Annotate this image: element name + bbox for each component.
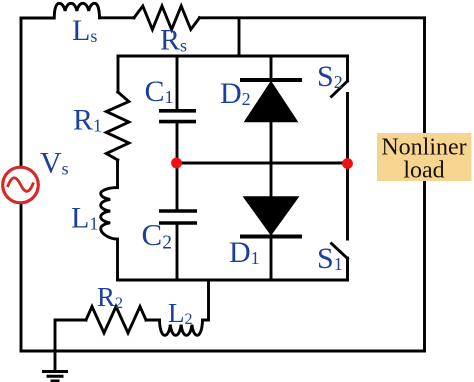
wire capacitor column upper xyxy=(176,56,179,109)
wire L2 riser xyxy=(203,280,209,320)
node left (red) xyxy=(171,158,182,169)
wire bridge bottom xyxy=(118,279,348,282)
nonlinear load box xyxy=(377,133,472,184)
svg-text:C1: C1 xyxy=(145,75,174,108)
svg-text:R1: R1 xyxy=(73,104,102,137)
wire left vertical (Vs branch) xyxy=(20,18,23,351)
resistor R2 xyxy=(86,307,146,334)
wire bridge left upper xyxy=(117,56,120,92)
wire bottom xyxy=(21,350,425,353)
wire bridge left middle xyxy=(116,160,119,188)
svg-text:Vs: Vs xyxy=(40,147,69,180)
wire capacitor column between C1 and node xyxy=(176,123,179,209)
wire diode column upper xyxy=(270,56,273,79)
svg-text:L2: L2 xyxy=(168,298,193,328)
source Vs xyxy=(3,167,39,203)
svg-text:S1: S1 xyxy=(317,242,343,275)
wire top left segment xyxy=(21,17,54,20)
svg-text:R2: R2 xyxy=(97,282,123,312)
wire middle node rail xyxy=(177,162,348,165)
svg-text:Rs: Rs xyxy=(160,24,187,57)
inductor Ls xyxy=(54,3,99,17)
inductor L1 xyxy=(101,188,118,240)
wire top middle segment xyxy=(100,16,135,19)
svg-text:S2: S2 xyxy=(317,60,343,93)
wire switch column between node and S1 xyxy=(346,163,349,239)
svg-text:Ls: Ls xyxy=(72,14,97,47)
svg-text:L1: L1 xyxy=(71,202,98,235)
wire R2 to ground stub xyxy=(55,320,86,371)
wire top right segment xyxy=(200,16,425,19)
capacitor C1 xyxy=(159,111,196,122)
wire capacitor column lower xyxy=(176,225,179,281)
wire diode column lower xyxy=(270,238,273,280)
wire right vertical xyxy=(423,18,426,351)
diode D1 xyxy=(240,197,302,237)
resistor R1 xyxy=(106,92,129,160)
wire feed from top to bridge xyxy=(238,18,241,56)
wire bridge left lower xyxy=(116,239,119,280)
wire bridge top xyxy=(118,55,348,58)
node right (red) xyxy=(342,158,353,169)
wire between L2 and R2 xyxy=(146,319,160,322)
capacitor C2 xyxy=(159,211,197,223)
wire diode column middle xyxy=(270,121,273,197)
switch S1 blade xyxy=(332,244,348,259)
wire switch column S2 upper xyxy=(346,56,349,81)
wire switch column between S2 and node xyxy=(346,94,349,164)
inductor L2 xyxy=(160,320,203,335)
wire switch column S1 lower xyxy=(346,258,349,280)
svg-text:D1: D1 xyxy=(229,236,260,269)
ground xyxy=(42,372,68,382)
diode D2 xyxy=(240,80,302,122)
resistor Rs xyxy=(134,6,200,30)
switch S2 blade xyxy=(332,81,348,97)
svg-text:load: load xyxy=(403,158,444,184)
